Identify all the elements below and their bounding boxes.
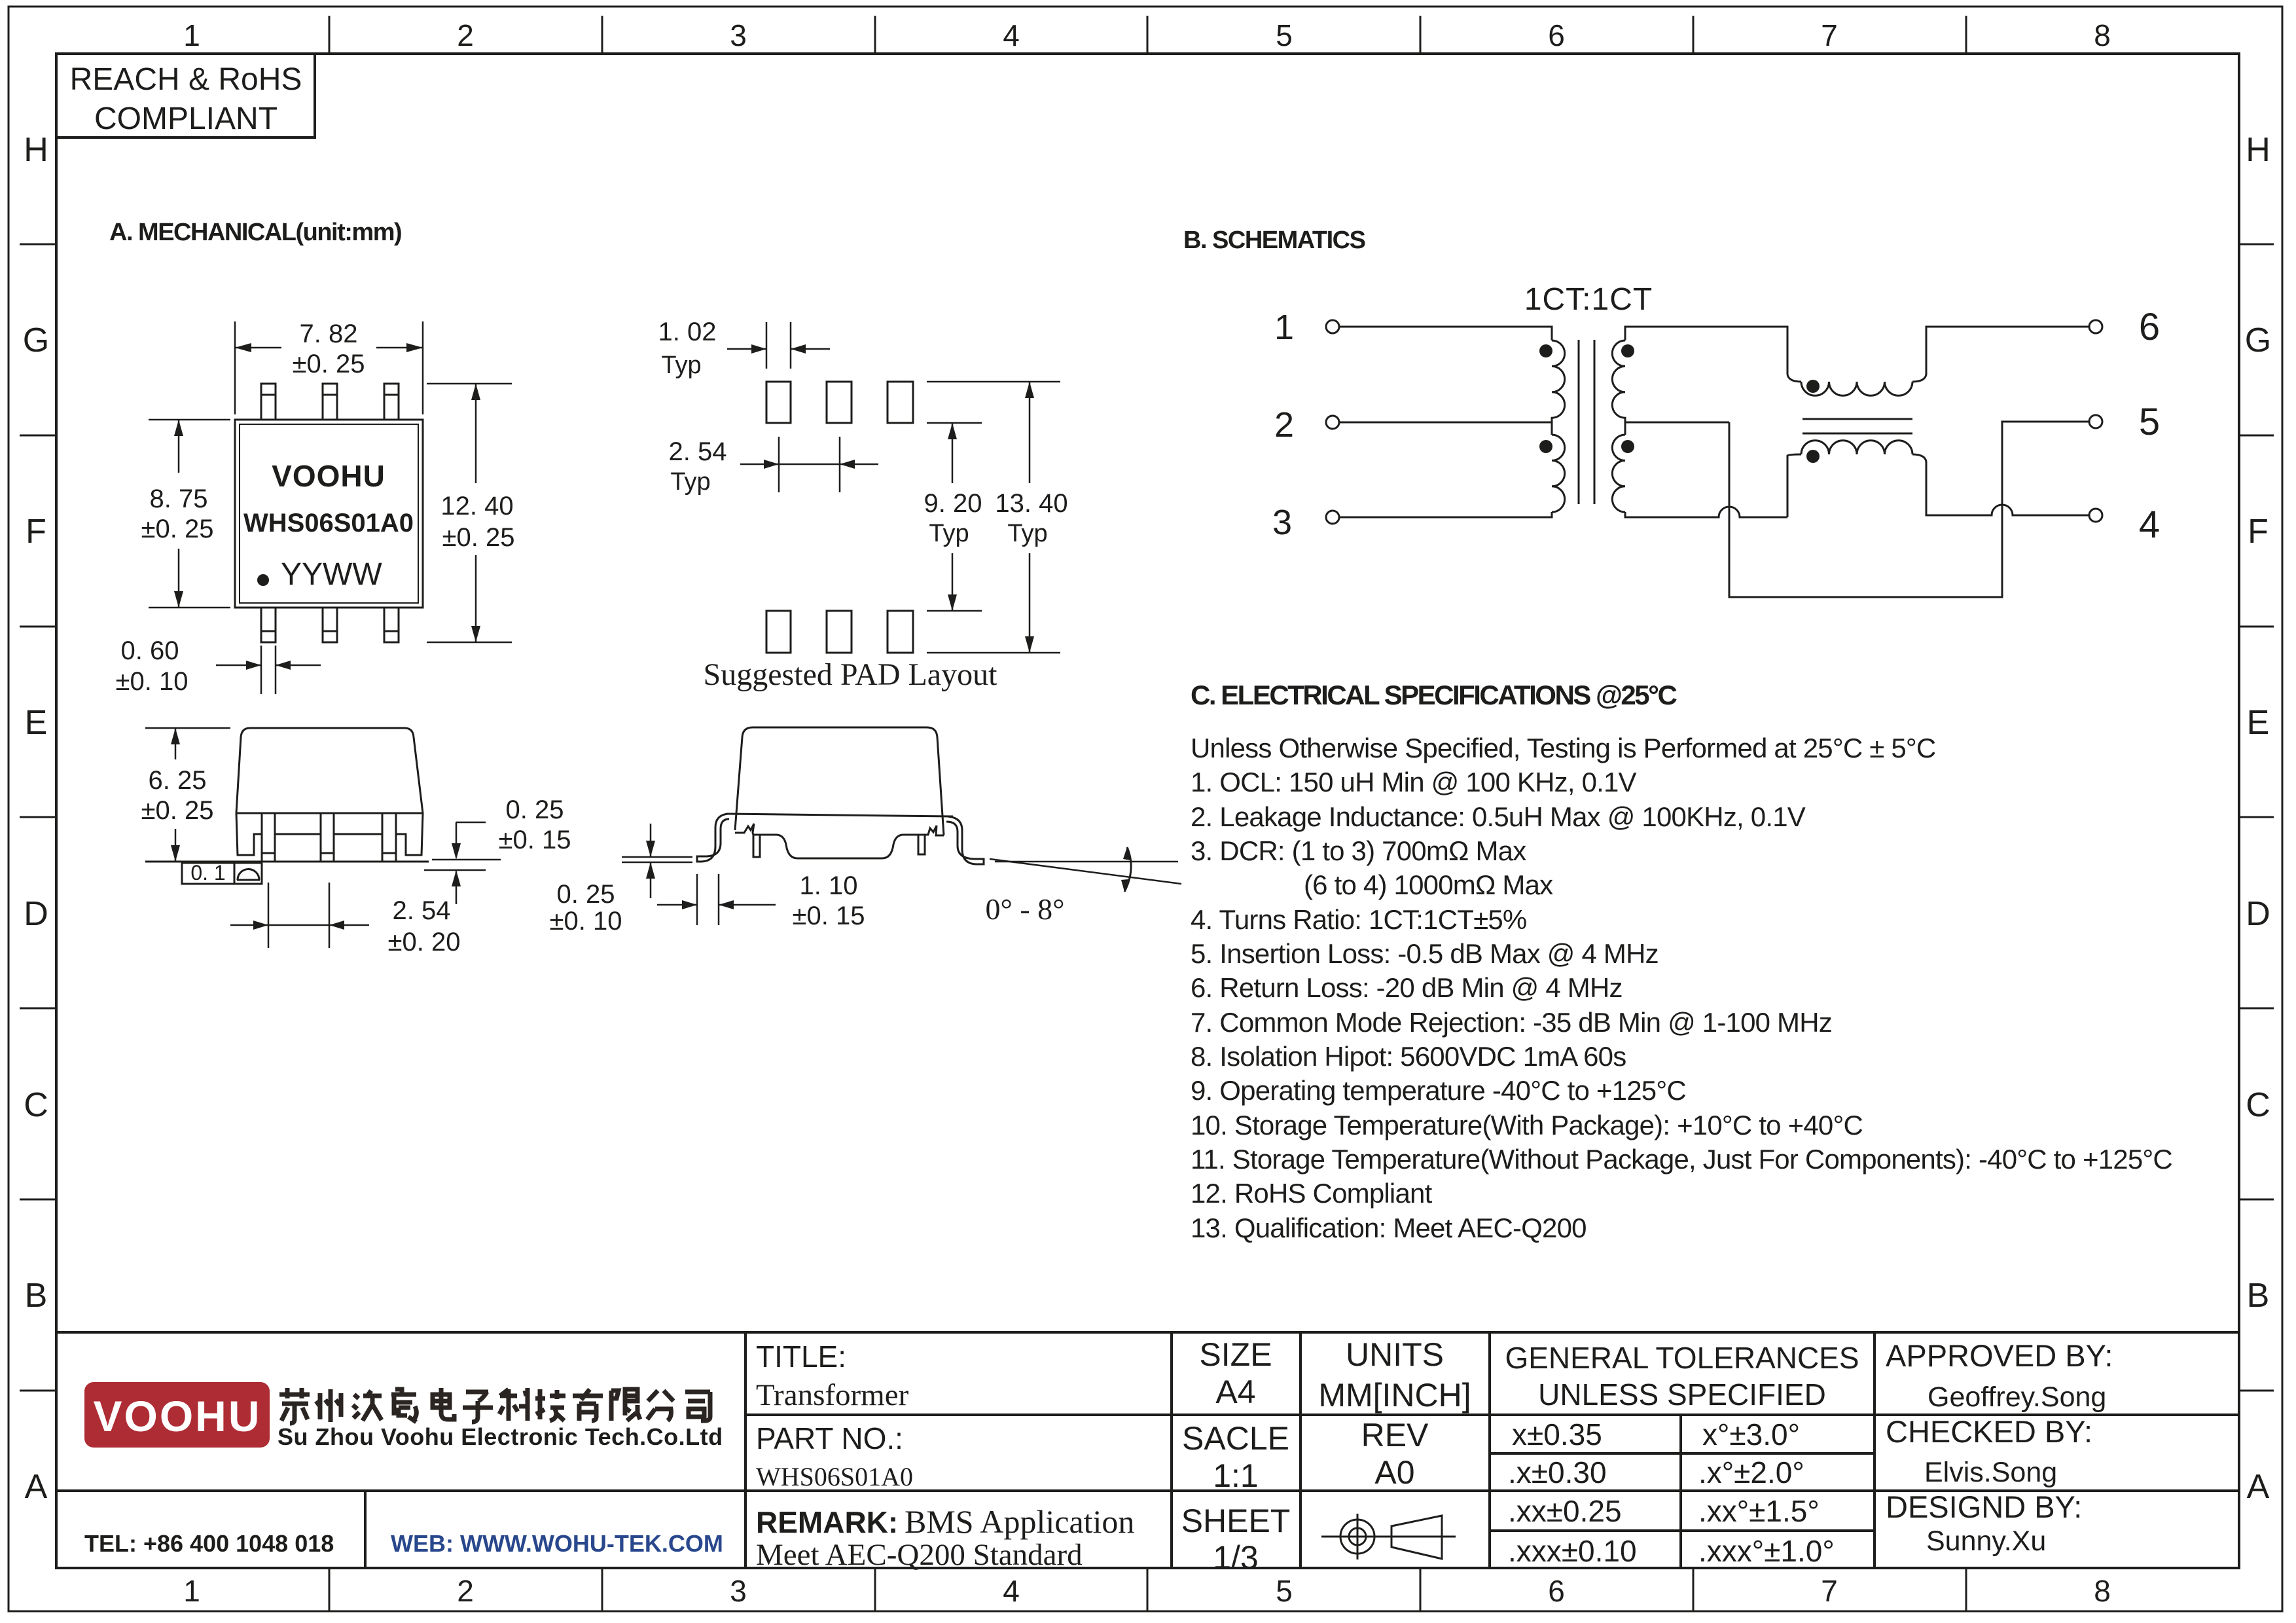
svg-text:±0. 25: ±0. 25 (442, 523, 515, 552)
svg-text:3: 3 (730, 1574, 747, 1608)
svg-text:E: E (25, 704, 48, 742)
pad dimension 13.40 Typ (927, 382, 1060, 653)
svg-text:.x°±2.0°: .x°±2.0° (1698, 1455, 1804, 1489)
right margin row letters H-A (2245, 131, 2271, 1506)
dimension 0.60 +/-0.10 (216, 646, 321, 694)
svg-text:8: 8 (2094, 18, 2111, 52)
choke top polarity dot (1806, 380, 1820, 393)
svg-text:Sunny.Xu: Sunny.Xu (1926, 1525, 2046, 1557)
svg-text:5: 5 (1276, 1574, 1293, 1608)
dimension 0.25 +/-0.10 (lead thickness) (622, 824, 692, 898)
wire center tap return bus to pin 5 (1729, 422, 2089, 597)
svg-text:13. 40: 13. 40 (995, 489, 1067, 518)
svg-text:1: 1 (1274, 308, 1294, 347)
wire choke bottom left riser (1787, 454, 1801, 517)
svg-text:1: 1 (183, 1574, 200, 1608)
svg-text:SIZE: SIZE (1199, 1336, 1272, 1373)
svg-text:6: 6 (2139, 306, 2160, 348)
svg-text:x°±3.0°: x°±3.0° (1702, 1417, 1800, 1451)
dimension 8.75 +/-0.25 (149, 420, 230, 608)
common-mode choke L1 core (1803, 419, 1912, 433)
svg-text:G: G (23, 321, 49, 359)
svg-text:Geoffrey.Song: Geoffrey.Song (1928, 1381, 2106, 1413)
svg-text:6. 25: 6. 25 (149, 766, 207, 795)
svg-text:.x±0.30: .x±0.30 (1508, 1455, 1607, 1489)
svg-text:A: A (2247, 1468, 2270, 1506)
svg-text:10. Storage Temperature(With P: 10. Storage Temperature(With Package): +… (1191, 1110, 1863, 1140)
svg-text:B: B (25, 1277, 48, 1315)
third-angle projection symbol (1321, 1514, 1456, 1559)
company name (Chinese) (279, 1388, 710, 1423)
svg-text:±0. 10: ±0. 10 (116, 667, 188, 696)
svg-text:WHS06S01A0: WHS06S01A0 (243, 509, 414, 538)
side view gull-wing lead right (946, 816, 984, 864)
svg-text:x±0.35: x±0.35 (1512, 1417, 1602, 1451)
title block horizontal dividers (57, 1415, 2239, 1531)
svg-text:Transformer: Transformer (756, 1378, 909, 1412)
svg-text:7: 7 (1821, 1574, 1838, 1608)
svg-text:12. RoHS Compliant: 12. RoHS Compliant (1191, 1178, 1433, 1209)
svg-text:4: 4 (2139, 503, 2160, 546)
svg-text:2. Leakage Inductance: 0.5uH M: 2. Leakage Inductance: 0.5uH Max @ 100KH… (1191, 801, 1806, 832)
svg-text:F: F (26, 513, 46, 551)
svg-text:0. 1: 0. 1 (190, 861, 225, 884)
pin1 index dot (257, 574, 269, 586)
svg-text:±0. 25: ±0. 25 (141, 796, 214, 825)
svg-text:0. 25: 0. 25 (557, 880, 615, 909)
svg-text:MM[INCH]: MM[INCH] (1318, 1377, 1471, 1413)
svg-text:UNITS: UNITS (1346, 1336, 1444, 1373)
svg-text:9. Operating temperature -40°C: 9. Operating temperature -40°C to +125°C (1191, 1075, 1686, 1106)
svg-text:REMARK:: REMARK: (756, 1505, 898, 1539)
svg-text:8: 8 (2094, 1574, 2111, 1608)
svg-text:4. Turns Ratio: 1CT:1CT±5%: 4. Turns Ratio: 1CT:1CT±5% (1191, 904, 1526, 935)
svg-text:G: G (2245, 321, 2271, 359)
company logo red badge (84, 1382, 270, 1448)
top margin column numbers 1-8 (183, 18, 2111, 52)
front view body (236, 728, 423, 813)
svg-text:A0: A0 (1374, 1454, 1414, 1491)
dimension 1.10 +/-0.15 (foot length) (657, 874, 776, 925)
svg-text:0° - 8°: 0° - 8° (985, 892, 1064, 926)
svg-text:Typ: Typ (661, 352, 701, 379)
svg-text:4: 4 (1003, 1574, 1020, 1608)
secondary upper polarity dot (1621, 344, 1634, 357)
bottom margin column numbers 1-8 (183, 1574, 2111, 1608)
pad dimension 1.02 Typ (727, 322, 830, 369)
transformer T1 secondary winding upper (1612, 340, 1625, 435)
left margin row letters H-A (23, 131, 49, 1506)
svg-text:BMS Application: BMS Application (905, 1503, 1134, 1540)
wire secondary top to common-mode choke (1625, 327, 1787, 374)
svg-text:H: H (2246, 131, 2270, 169)
title block vertical dividers (365, 1332, 1874, 1568)
common-mode choke L1 bottom winding (1801, 441, 1912, 454)
top view pins (6) (261, 384, 399, 642)
svg-text:.xx°±1.5°: .xx°±1.5° (1698, 1494, 1820, 1528)
dimension 0.25 +/-0.15 (standoff) (424, 822, 501, 904)
svg-text:COMPLIANT: COMPLIANT (94, 101, 278, 136)
transformer T1 primary winding upper (1552, 340, 1565, 435)
seating plane line (145, 861, 429, 863)
svg-text:Typ: Typ (670, 468, 710, 496)
svg-text:C. ELECTRICAL SPECIFICATIONS @: C. ELECTRICAL SPECIFICATIONS @25°C (1191, 680, 1677, 710)
choke bottom polarity dot (1806, 450, 1820, 463)
svg-text:1: 1 (183, 18, 200, 52)
top margin column ticks (329, 16, 1966, 54)
svg-text:8. Isolation Hipot: 5600VDC 1m: 8. Isolation Hipot: 5600VDC 1mA 60s (1191, 1041, 1626, 1072)
svg-text:.xxx±0.10: .xxx±0.10 (1508, 1534, 1637, 1568)
pin 1 terminal (1326, 320, 1339, 333)
svg-text:3: 3 (1272, 503, 1292, 542)
front view legs (3) (262, 813, 396, 862)
svg-text:±0. 25: ±0. 25 (293, 350, 365, 378)
svg-text:1. 10: 1. 10 (800, 871, 858, 900)
svg-text:3. DCR: (1 to 3) 700mΩ Max: 3. DCR: (1 to 3) 700mΩ Max (1191, 835, 1526, 866)
transformer T1 core (1579, 340, 1594, 504)
svg-text:2. 54: 2. 54 (669, 437, 727, 466)
left margin row ticks (20, 244, 56, 1391)
side view gull-wing lead left (697, 814, 729, 862)
svg-text:6. Return Loss: -20 dB Min @ 4: 6. Return Loss: -20 dB Min @ 4 MHz (1191, 972, 1623, 1003)
wire secondary bottom with crossover hop (1625, 507, 1787, 517)
wire pin1 to primary (1339, 327, 1552, 340)
svg-text:D: D (24, 895, 48, 933)
wire secondary center tap to node (1625, 422, 1729, 424)
svg-text:1:1: 1:1 (1213, 1457, 1259, 1494)
svg-text:5: 5 (2139, 401, 2160, 443)
svg-text:7: 7 (1821, 18, 1838, 52)
svg-text:TITLE:: TITLE: (756, 1340, 846, 1374)
svg-text:REV: REV (1361, 1417, 1429, 1453)
svg-text:Typ: Typ (1007, 520, 1047, 547)
svg-text:A: A (25, 1468, 48, 1506)
svg-text:2: 2 (457, 18, 474, 52)
svg-text:Typ: Typ (929, 520, 969, 547)
svg-text:0. 60: 0. 60 (121, 636, 179, 665)
svg-text:F: F (2248, 513, 2269, 551)
svg-text:(6 to 4) 1000mΩ Max: (6 to 4) 1000mΩ Max (1304, 869, 1553, 900)
svg-text:2. 54: 2. 54 (393, 896, 451, 925)
pin 3 terminal (1326, 511, 1339, 524)
wire pin3 to primary (1339, 512, 1552, 517)
svg-text:.xxx°±1.0°: .xxx°±1.0° (1698, 1534, 1835, 1568)
svg-text:4: 4 (1003, 18, 1020, 52)
dimension 12.40 +/-0.25 (427, 384, 512, 642)
svg-text:Elvis.Song: Elvis.Song (1924, 1457, 2057, 1488)
pin 2 terminal (1326, 416, 1339, 429)
pad dimension 2.54 Typ (740, 437, 878, 492)
common-mode choke L1 top winding (1801, 382, 1912, 395)
lead angle 0-8 degrees indicator (990, 847, 1181, 892)
svg-text:CHECKED BY:: CHECKED BY: (1886, 1414, 2092, 1449)
svg-text:±0. 10: ±0. 10 (550, 907, 622, 936)
transformer T1 secondary winding lower (1612, 435, 1625, 512)
svg-text:A. MECHANICAL(unit:mm): A. MECHANICAL(unit:mm) (109, 219, 401, 246)
svg-text:GENERAL TOLERANCES: GENERAL TOLERANCES (1505, 1341, 1859, 1375)
svg-text:REACH & RoHS: REACH & RoHS (70, 62, 302, 97)
svg-text:VOOHU: VOOHU (272, 459, 386, 493)
wire choke top to pin 6 (1912, 327, 2089, 382)
secondary lower polarity dot (1621, 440, 1634, 453)
svg-text:7. 82: 7. 82 (300, 319, 358, 348)
svg-text:6: 6 (1548, 18, 1565, 52)
wire choke bottom to pin 4 with crossover hop (1912, 454, 2089, 515)
svg-text:5. Insertion Loss: -0.5 dB Max: 5. Insertion Loss: -0.5 dB Max @ 4 MHz (1191, 938, 1659, 969)
svg-text:±0. 15: ±0. 15 (499, 826, 571, 854)
title block outer top line (57, 1331, 2239, 1334)
svg-text:APPROVED BY:: APPROVED BY: (1886, 1338, 2113, 1373)
svg-text:3: 3 (730, 18, 747, 52)
electrical specification list (1191, 733, 2172, 1243)
svg-text:5: 5 (1276, 18, 1293, 52)
svg-text:2: 2 (457, 1574, 474, 1608)
svg-text:Meet AEC-Q200 Standard: Meet AEC-Q200 Standard (756, 1538, 1083, 1572)
dimension 7.82 +/-0.25 (235, 321, 423, 414)
svg-text:H: H (24, 131, 48, 169)
svg-text:.xx±0.25: .xx±0.25 (1508, 1494, 1622, 1528)
svg-text:2: 2 (1274, 405, 1294, 445)
svg-text:1. OCL: 150 uH Min @ 100 KHz,: 1. OCL: 150 uH Min @ 100 KHz, 0.1V (1191, 767, 1637, 797)
top view component body (235, 420, 423, 608)
svg-text:1. 02: 1. 02 (658, 318, 717, 346)
side view underside profile (735, 824, 944, 858)
svg-text:SHEET: SHEET (1181, 1503, 1291, 1539)
dimension 6.25 +/-0.25 (145, 728, 230, 862)
primary lower polarity dot (1539, 440, 1552, 453)
pin 6 terminal (2089, 320, 2102, 333)
suggested pad layout pads (6) (766, 382, 913, 653)
bottom margin column ticks (329, 1568, 1966, 1611)
dimension 2.54 +/-0.20 (front view pin pitch) (230, 883, 369, 948)
svg-text:6: 6 (1548, 1574, 1565, 1608)
svg-text:±0. 15: ±0. 15 (793, 902, 865, 930)
svg-text:±0. 20: ±0. 20 (388, 928, 461, 957)
svg-text:C: C (24, 1086, 48, 1124)
svg-text:7. Common Mode Rejection: -35: 7. Common Mode Rejection: -35 dB Min @ 1… (1191, 1007, 1832, 1038)
svg-text:D: D (2246, 895, 2270, 933)
svg-text:0. 25: 0. 25 (506, 795, 564, 824)
REACH & RoHS COMPLIANT box (56, 54, 315, 137)
svg-text:VOOHU: VOOHU (93, 1392, 261, 1440)
svg-text:YYWW: YYWW (281, 557, 382, 592)
svg-text:PART NO.:: PART NO.: (756, 1421, 903, 1455)
side view body (726, 727, 953, 835)
transformer T1 primary winding lower (1552, 435, 1565, 512)
svg-text:B: B (2247, 1277, 2270, 1315)
pin 4 terminal (2089, 509, 2102, 522)
svg-text:12. 40: 12. 40 (440, 492, 513, 520)
svg-text:Suggested PAD Layout: Suggested PAD Layout (704, 657, 998, 692)
pad dimension 9.20 Typ (927, 423, 982, 611)
pin 5 terminal (2089, 415, 2102, 428)
primary upper polarity dot (1539, 344, 1552, 357)
svg-text:1/3: 1/3 (1213, 1539, 1259, 1576)
svg-text:B. SCHEMATICS: B. SCHEMATICS (1183, 227, 1365, 254)
svg-text:9. 20: 9. 20 (924, 489, 982, 518)
svg-text:A4: A4 (1215, 1374, 1255, 1410)
svg-text:SACLE: SACLE (1182, 1420, 1289, 1457)
svg-text:±0. 25: ±0. 25 (141, 515, 214, 543)
svg-text:WHS06S01A0: WHS06S01A0 (756, 1462, 913, 1491)
seating plane flatness callout box 0.1 (182, 863, 262, 884)
svg-text:11. Storage Temperature(Withou: 11. Storage Temperature(Without Package,… (1191, 1144, 2172, 1175)
svg-text:E: E (2247, 704, 2270, 742)
front view base skirts and underside (236, 813, 423, 855)
svg-text:Unless Otherwise Specified, Te: Unless Otherwise Specified, Testing is P… (1191, 733, 1935, 763)
svg-text:UNLESS SPECIFIED: UNLESS SPECIFIED (1538, 1377, 1826, 1412)
choke top winding entry arc (1787, 374, 1801, 382)
svg-text:TEL: +86 400 1048 018: TEL: +86 400 1048 018 (84, 1530, 334, 1557)
svg-text:Su Zhou Voohu Electronic Tech.: Su Zhou Voohu Electronic Tech.Co.Ltd (278, 1423, 723, 1450)
right margin row ticks (2239, 244, 2274, 1391)
svg-text:DESIGND BY:: DESIGND BY: (1886, 1489, 2082, 1524)
svg-text:C: C (2246, 1086, 2270, 1124)
svg-text:WEB: WWW.WOHU-TEK.COM: WEB: WWW.WOHU-TEK.COM (391, 1530, 723, 1557)
svg-text:8. 75: 8. 75 (150, 484, 208, 513)
svg-text:13. Qualification: Meet AEC-Q: 13. Qualification: Meet AEC-Q200 (1191, 1213, 1587, 1243)
svg-text:1CT:1CT: 1CT:1CT (1524, 282, 1653, 317)
wire pin2 to primary center tap (1339, 422, 1552, 424)
